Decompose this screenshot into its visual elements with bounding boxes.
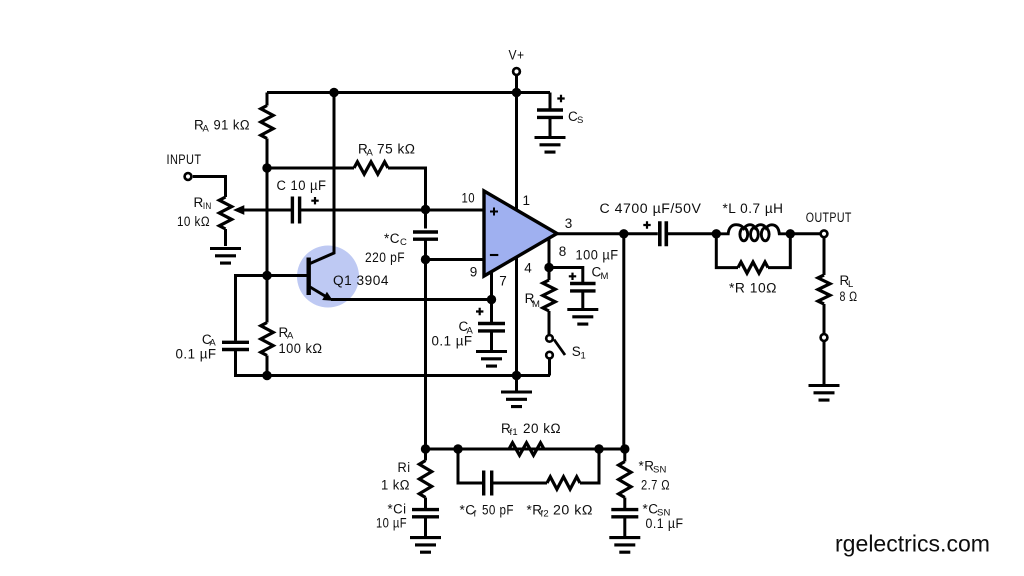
wire V+ terminal stem bbox=[515, 76, 518, 93]
wire input to RIN bbox=[193, 177, 226, 198]
junction pin8 / RM / CM bbox=[544, 263, 553, 272]
resistor Ri 1k bbox=[419, 461, 431, 498]
resistor RA 91k bbox=[261, 106, 273, 139]
junction V+ rail / pin1 bbox=[512, 88, 521, 97]
svg-text:rgelectrics.com: rgelectrics.com bbox=[835, 531, 990, 557]
resistor Rf1 20k bbox=[509, 443, 544, 455]
svg-text:3: 3 bbox=[565, 216, 573, 231]
svg-text:f: f bbox=[474, 509, 477, 520]
svg-text:1: 1 bbox=[581, 351, 586, 362]
capacitor Cf 50pF bbox=[484, 471, 492, 496]
capacitor CM 100uF bbox=[570, 284, 596, 291]
polarity + CA pin7 bbox=[476, 308, 483, 315]
transistor Q1 highlight circle bbox=[297, 246, 359, 308]
polarity + C4700 bbox=[643, 221, 650, 228]
svg-text:C: C bbox=[400, 237, 407, 248]
wire Rf1 left lead bbox=[509, 448, 511, 451]
wire pin8 node to RM bbox=[548, 268, 551, 281]
wire CC to -input bbox=[424, 239, 427, 259]
svg-text:M: M bbox=[532, 299, 540, 310]
svg-text:S: S bbox=[577, 115, 584, 126]
wire RL to terminal bbox=[823, 304, 826, 333]
resistor RA 75k bbox=[354, 162, 388, 174]
wire top V+ rail bbox=[267, 91, 550, 94]
wire base node to RA100k bbox=[266, 276, 269, 323]
svg-text:IN: IN bbox=[203, 201, 212, 212]
capacitor CA 0.1uF left bbox=[222, 342, 249, 349]
wire x267 down to base node bbox=[266, 168, 269, 276]
wire Rf2 to top rail bbox=[580, 449, 599, 483]
wire CS top lead bbox=[549, 93, 552, 109]
svg-text:9: 9 bbox=[470, 265, 478, 280]
wire pin4 ground stem bbox=[515, 376, 518, 393]
svg-text:Q1 3904: Q1 3904 bbox=[333, 273, 389, 288]
ground Ci bbox=[410, 538, 441, 553]
inductor L 0.7uH bbox=[716, 225, 788, 234]
wire pin7 bbox=[490, 270, 493, 300]
svg-text:C 4700 µF/50V: C 4700 µF/50V bbox=[600, 201, 702, 216]
capacitor CC 220pF bbox=[413, 232, 438, 239]
wire -input bbox=[426, 258, 485, 261]
wire terminal to ground bbox=[823, 342, 826, 385]
junction L left bbox=[712, 229, 721, 238]
wire R10 right leg bbox=[768, 234, 790, 268]
svg-text:OUTPUT: OUTPUT bbox=[806, 210, 852, 225]
polarity + C10uF bbox=[311, 197, 318, 204]
resistor R 10ohm bbox=[738, 262, 768, 273]
wire Ri to Ci bbox=[424, 498, 427, 509]
junction V+ rail / collector bbox=[329, 88, 338, 97]
wire +input to CC bbox=[424, 210, 427, 229]
junction emitter / pin7 bbox=[487, 295, 496, 304]
junction Rf2 / top rail bbox=[594, 444, 603, 453]
wire CA left to bottom node bbox=[236, 350, 268, 376]
svg-text:A: A bbox=[287, 331, 294, 342]
wire inverting node down bbox=[424, 260, 427, 450]
svg-text:INPUT: INPUT bbox=[167, 152, 202, 167]
junction pin4 / ground bus bbox=[512, 371, 521, 380]
switch S1 blade bbox=[554, 340, 565, 356]
wire base node to CA left bbox=[236, 276, 268, 341]
potentiometer RIN 10k bbox=[219, 197, 231, 229]
svg-text:*R 10Ω: *R 10Ω bbox=[729, 281, 777, 296]
junction RA100k bottom bbox=[262, 371, 271, 380]
ground CS bbox=[535, 138, 566, 153]
svg-text:A: A bbox=[203, 124, 210, 135]
wire pin8 bbox=[548, 237, 551, 268]
svg-text:0.1 µF: 0.1 µF bbox=[176, 347, 217, 362]
svg-text:10: 10 bbox=[462, 191, 476, 206]
svg-text:100 kΩ: 100 kΩ bbox=[279, 341, 323, 356]
wire RA91k top lead bbox=[266, 93, 269, 106]
transistor Q1 base bar bbox=[307, 258, 311, 296]
capacitor CA 0.1uF pin7 bbox=[478, 324, 505, 331]
wire pin8 to CM bbox=[549, 268, 583, 283]
ground RIN bbox=[210, 249, 241, 264]
junction -input / CC bbox=[421, 255, 430, 264]
svg-text:f2: f2 bbox=[541, 509, 549, 520]
junction Cf branch bbox=[453, 444, 462, 453]
wire ground bus y375 bbox=[267, 374, 550, 377]
junction Ri / Rf1 bbox=[421, 444, 430, 453]
junction output / feedback bbox=[619, 229, 628, 238]
op-amp + input mark bbox=[490, 208, 498, 216]
ground RL bbox=[809, 386, 840, 401]
resistor RSN 2.7ohm bbox=[619, 462, 631, 498]
wire Ri top lead bbox=[424, 449, 427, 461]
svg-text:2.7 Ω: 2.7 Ω bbox=[641, 478, 670, 493]
svg-text:91 kΩ: 91 kΩ bbox=[214, 118, 251, 133]
resistor Rf2 20k bbox=[547, 477, 580, 489]
inductor L loop 2 bbox=[751, 228, 759, 241]
svg-text:20 kΩ: 20 kΩ bbox=[523, 421, 561, 436]
svg-text:A: A bbox=[367, 148, 374, 159]
junction RSN / feedback bbox=[620, 444, 629, 453]
inductor L loop 3 bbox=[761, 228, 769, 241]
wire CS to ground bbox=[549, 117, 552, 136]
wire opamp output bbox=[557, 232, 658, 235]
terminal RL bottom bbox=[821, 334, 828, 341]
svg-text:0.1 µF: 0.1 µF bbox=[432, 334, 473, 349]
resistor RA 100k bbox=[261, 323, 273, 356]
wire pin1 V+ bbox=[515, 93, 518, 214]
wire switch to ground bus bbox=[548, 359, 551, 376]
polarity + CS bbox=[557, 95, 564, 102]
wire output node down to RSN net bbox=[622, 234, 625, 449]
wire +input bbox=[301, 209, 484, 212]
junction +input / CC bbox=[421, 205, 430, 214]
ground CA pin7 bbox=[476, 352, 507, 367]
capacitor C 10uF bbox=[292, 197, 299, 224]
terminal INPUT bbox=[185, 173, 192, 180]
polarity + CM bbox=[569, 273, 576, 280]
svg-text:*L 0.7 µH: *L 0.7 µH bbox=[723, 201, 784, 216]
wire Cf to Rf2 bbox=[492, 482, 547, 485]
wire R10 left leg bbox=[716, 234, 738, 268]
svg-text:M: M bbox=[601, 271, 609, 282]
switch S1 bottom contact bbox=[546, 352, 553, 359]
svg-text:8 Ω: 8 Ω bbox=[840, 289, 858, 304]
capacitor C 4700uF/50V bbox=[660, 221, 667, 246]
wire node A to RA75k bbox=[267, 167, 354, 170]
wire Rf1 right lead bbox=[544, 448, 625, 451]
wire emitter to pin7 bbox=[331, 298, 492, 301]
op-amp - input mark bbox=[490, 254, 498, 256]
svg-text:C 10 µF: C 10 µF bbox=[277, 178, 327, 193]
wiper arrow RIN bbox=[241, 209, 292, 212]
wire Ci to ground bbox=[424, 517, 427, 538]
wire to OUTPUT terminal bbox=[790, 232, 819, 235]
resistor RL 8ohm bbox=[818, 275, 830, 304]
ground CM bbox=[567, 310, 598, 325]
wire collector Q1 bbox=[310, 93, 334, 264]
op-amp U1 bbox=[484, 191, 557, 276]
inductor L loop 1 bbox=[740, 228, 748, 241]
wire CM to ground bbox=[581, 291, 584, 309]
svg-text:SN: SN bbox=[653, 465, 667, 476]
wire RA100k bottom lead bbox=[266, 356, 269, 376]
svg-text:Ri: Ri bbox=[398, 460, 411, 475]
wire OUTPUT to RL bbox=[823, 238, 826, 275]
svg-text:*C: *C bbox=[384, 231, 400, 246]
svg-text:f1: f1 bbox=[510, 427, 518, 438]
wire RA91k bottom lead bbox=[266, 139, 269, 169]
svg-text:10 kΩ: 10 kΩ bbox=[177, 214, 210, 229]
resistor RM bbox=[543, 280, 555, 311]
wire RIN to ground bbox=[224, 229, 227, 246]
wire CA pin7 to ground bbox=[490, 331, 493, 351]
ground CSN bbox=[609, 538, 640, 553]
terminal V+ bbox=[513, 68, 520, 75]
svg-text:V+: V+ bbox=[509, 48, 525, 63]
junction RA91k / RA75k bbox=[262, 163, 271, 172]
svg-text:1 kΩ: 1 kΩ bbox=[381, 478, 410, 493]
wire cap to L bbox=[668, 232, 716, 235]
svg-text:20 kΩ: 20 kΩ bbox=[553, 503, 593, 518]
switch S1 top contact bbox=[546, 335, 553, 342]
wire Cf branch left bbox=[458, 449, 484, 483]
wire RM to switch bbox=[548, 311, 551, 335]
wire RSN to CSN bbox=[623, 498, 626, 509]
wire base Q1 bbox=[267, 274, 307, 277]
junction base node bbox=[262, 271, 271, 280]
svg-text:8: 8 bbox=[559, 244, 567, 259]
junction L right bbox=[786, 229, 795, 238]
wire pin7 to CA bbox=[490, 300, 493, 323]
svg-text:1: 1 bbox=[523, 193, 531, 208]
svg-text:*Ci: *Ci bbox=[388, 502, 407, 517]
capacitor CS bbox=[537, 110, 563, 117]
capacitor Ci 10uF bbox=[412, 510, 439, 517]
svg-text:4: 4 bbox=[524, 261, 532, 276]
transistor Q1 emitter bbox=[310, 287, 328, 298]
svg-text:75 kΩ: 75 kΩ bbox=[377, 142, 416, 157]
wire RSN top lead bbox=[623, 449, 626, 462]
svg-text:50 pF: 50 pF bbox=[482, 503, 514, 518]
capacitor CSN 0.1uF bbox=[611, 510, 638, 517]
svg-text:10 µF: 10 µF bbox=[376, 516, 407, 531]
svg-text:0.1 µF: 0.1 µF bbox=[646, 516, 684, 531]
svg-text:7: 7 bbox=[499, 274, 507, 289]
wire RA75k to +input node bbox=[388, 168, 426, 210]
svg-text:220 pF: 220 pF bbox=[365, 250, 405, 265]
wire CSN to ground bbox=[623, 517, 626, 538]
svg-text:100 µF: 100 µF bbox=[576, 248, 619, 263]
wire feedback top rail bbox=[426, 448, 625, 451]
terminal OUTPUT bbox=[821, 230, 828, 237]
wire pin4 bbox=[515, 255, 518, 376]
ground pin4 bbox=[501, 392, 532, 407]
